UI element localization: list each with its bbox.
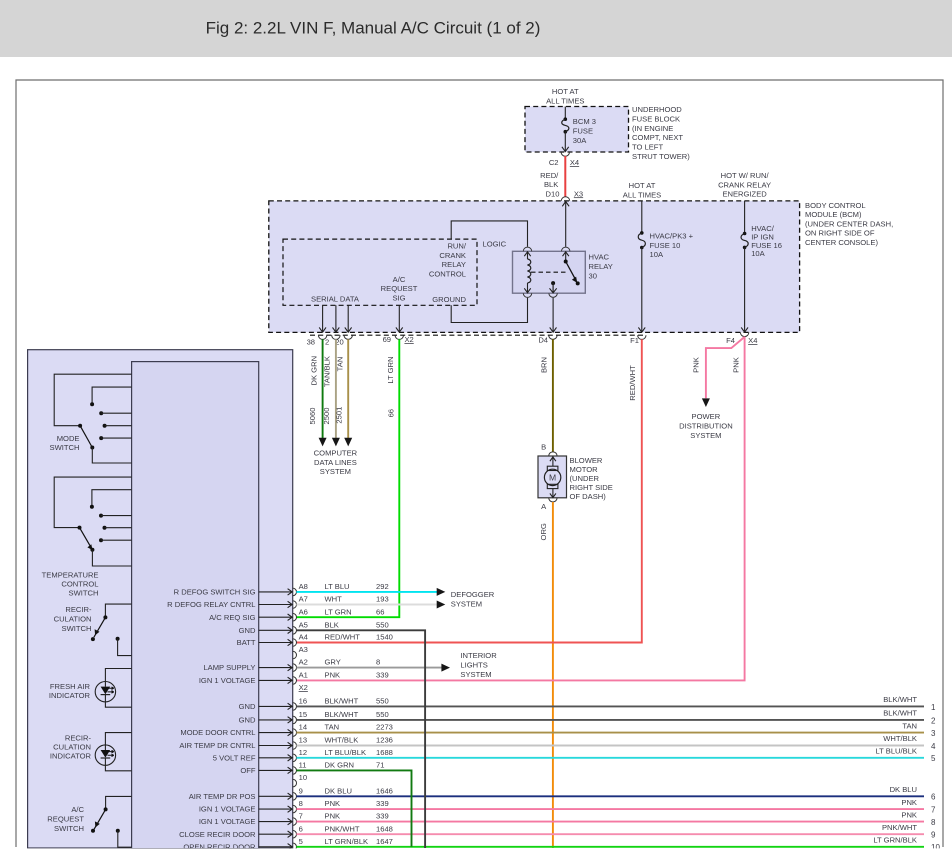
wire DK GRN 5060 bbox=[322, 339, 324, 438]
connector pin A5 bbox=[293, 627, 297, 635]
a/c request sig pin arrow bbox=[398, 305, 400, 332]
connector pin A4 bbox=[293, 639, 297, 647]
svg-text:INDICATOR: INDICATOR bbox=[50, 751, 92, 760]
svg-text:CULATION: CULATION bbox=[54, 614, 92, 623]
svg-text:30: 30 bbox=[589, 271, 597, 280]
svg-text:X4: X4 bbox=[748, 336, 757, 345]
arrow defogger A7 bbox=[437, 601, 446, 609]
svg-text:LT GRN/BLK: LT GRN/BLK bbox=[873, 836, 917, 845]
svg-text:AIR TEMP DR CNTRL: AIR TEMP DR CNTRL bbox=[179, 741, 255, 750]
connector arc pin D4 bbox=[549, 335, 557, 339]
connector pin 8 (X2) bbox=[293, 805, 297, 813]
svg-text:BLK/WHT: BLK/WHT bbox=[325, 710, 359, 719]
fuse BCM3 bbox=[564, 117, 568, 121]
svg-text:A8: A8 bbox=[299, 582, 308, 591]
svg-text:INDICATOR: INDICATOR bbox=[49, 691, 91, 700]
connector pin 16 (X2) bbox=[293, 703, 297, 711]
svg-text:X3: X3 bbox=[574, 189, 583, 198]
svg-text:SWITCH: SWITCH bbox=[50, 443, 80, 452]
connector pin 14 (X2) bbox=[293, 729, 297, 737]
wire TAN/BLK 2500 bbox=[335, 339, 337, 438]
svg-text:RED/WHT: RED/WHT bbox=[628, 365, 637, 401]
svg-text:30A: 30A bbox=[573, 136, 587, 145]
svg-text:1: 1 bbox=[931, 703, 936, 712]
svg-text:MODE: MODE bbox=[57, 434, 80, 443]
svg-text:69: 69 bbox=[383, 335, 391, 344]
svg-text:A2: A2 bbox=[299, 658, 308, 667]
svg-text:9: 9 bbox=[931, 831, 936, 840]
connector arc pin F1 bbox=[638, 335, 646, 339]
svg-text:HVAC: HVAC bbox=[589, 253, 610, 262]
svg-text:FRESH AIR: FRESH AIR bbox=[50, 682, 91, 691]
wire relay output to D4 bbox=[552, 298, 554, 332]
mode switch contact4 bbox=[99, 436, 103, 440]
connector arc pin 20 bbox=[344, 335, 352, 339]
ac request switch arm bbox=[94, 809, 106, 829]
title banner bbox=[0, 0, 952, 57]
wire LT BLU/BLK 1688 row 12 bbox=[296, 757, 924, 759]
svg-text:RED/: RED/ bbox=[540, 171, 559, 180]
connector arc pin 38 bbox=[318, 335, 326, 339]
svg-text:B: B bbox=[541, 443, 546, 452]
wire WHT/BLK 1236 row 13 bbox=[296, 745, 924, 747]
svg-text:LT BLU/BLK: LT BLU/BLK bbox=[875, 747, 917, 756]
svg-text:71: 71 bbox=[376, 761, 384, 770]
svg-text:M: M bbox=[549, 472, 556, 482]
wire RED/WHT bbox=[296, 339, 642, 642]
svg-text:PNK/WHT: PNK/WHT bbox=[325, 824, 360, 833]
svg-text:3: 3 bbox=[931, 729, 936, 738]
svg-text:PNK/WHT: PNK/WHT bbox=[882, 823, 917, 832]
svg-text:D4: D4 bbox=[538, 335, 548, 344]
wire PNK 339 row 7 bbox=[296, 821, 924, 823]
wire LT GRN 66 bbox=[296, 339, 399, 617]
blower motor lead top bbox=[552, 456, 554, 466]
svg-text:TAN/BLK: TAN/BLK bbox=[322, 356, 331, 387]
svg-text:AIR TEMP DR POS: AIR TEMP DR POS bbox=[189, 792, 256, 801]
svg-text:PNK: PNK bbox=[692, 357, 701, 373]
wire DK BLU 1646 row 9 bbox=[296, 795, 924, 797]
svg-text:BODY CONTROL: BODY CONTROL bbox=[805, 201, 866, 210]
connector X2/X3 strip line bbox=[310, 334, 646, 336]
connector pin 15 (X2) bbox=[293, 716, 297, 724]
svg-text:1540: 1540 bbox=[376, 633, 393, 642]
svg-text:GROUND: GROUND bbox=[432, 295, 466, 304]
svg-text:OPEN RECIR DOOR: OPEN RECIR DOOR bbox=[183, 842, 256, 851]
svg-text:RIGHT SIDE: RIGHT SIDE bbox=[570, 483, 613, 492]
svg-text:REQUEST: REQUEST bbox=[47, 814, 84, 823]
wire fuse16 bottom lead F4 bbox=[744, 247, 746, 332]
fresh air indicator wiring bbox=[105, 669, 131, 682]
wire BLK/WHT 550 row 16 bbox=[296, 705, 924, 707]
relay coil bbox=[528, 259, 531, 283]
svg-text:5: 5 bbox=[299, 837, 303, 846]
svg-text:IGN 1 VOLTAGE: IGN 1 VOLTAGE bbox=[199, 805, 256, 814]
svg-text:HOT AT: HOT AT bbox=[552, 87, 579, 96]
arrow interior lights bbox=[441, 664, 450, 672]
wire BLK 550 vertical bbox=[296, 630, 425, 848]
mode switch arm bbox=[80, 426, 92, 448]
svg-text:ENERGIZED: ENERGIZED bbox=[722, 190, 767, 199]
connector arc blower B bbox=[549, 452, 557, 456]
connector pin A3 bbox=[293, 651, 297, 659]
arrow at fuse block bottom bbox=[562, 147, 569, 152]
relay output arrow bbox=[552, 283, 554, 293]
fuse HVAC/PK3 FUSE 10 10A bbox=[640, 231, 644, 235]
svg-text:IGN 1 VOLTAGE: IGN 1 VOLTAGE bbox=[199, 676, 256, 685]
serial data pin arrows bbox=[322, 305, 324, 332]
svg-text:1648: 1648 bbox=[376, 824, 393, 833]
relay switch arm end dot bbox=[576, 281, 580, 285]
svg-text:UNDERHOOD: UNDERHOOD bbox=[632, 105, 682, 114]
svg-text:(IN ENGINE: (IN ENGINE bbox=[632, 124, 673, 133]
svg-text:CENTER CONSOLE): CENTER CONSOLE) bbox=[805, 238, 878, 247]
temp switch contact4 bbox=[99, 538, 103, 542]
svg-text:A4: A4 bbox=[299, 633, 308, 642]
svg-text:SYSTEM: SYSTEM bbox=[460, 670, 491, 679]
wire fuse BCM3 top lead bbox=[564, 107, 566, 120]
svg-text:SWITCH: SWITCH bbox=[69, 589, 99, 598]
svg-text:FUSE 10: FUSE 10 bbox=[650, 241, 681, 250]
svg-text:HOT AT: HOT AT bbox=[629, 181, 656, 190]
svg-text:GND: GND bbox=[239, 702, 256, 711]
connector pin 12 (X2) bbox=[293, 754, 297, 762]
connector C2/X4 arc bbox=[561, 152, 569, 156]
wire LT GRN/BLK 1647 row 5 bbox=[296, 846, 924, 848]
connector arc coil top bbox=[523, 247, 531, 251]
connector pin 10 (X2) bbox=[293, 779, 297, 787]
relay switch arm bbox=[566, 262, 575, 279]
svg-text:WHT: WHT bbox=[325, 595, 343, 604]
connector pin A7 bbox=[293, 601, 297, 609]
svg-text:339: 339 bbox=[376, 671, 389, 680]
svg-text:CRANK: CRANK bbox=[439, 251, 466, 260]
svg-text:11: 11 bbox=[299, 761, 307, 770]
wire GRY 8 bbox=[296, 667, 441, 669]
svg-text:BLK/WHT: BLK/WHT bbox=[325, 697, 359, 706]
svg-text:X2: X2 bbox=[299, 683, 308, 692]
svg-text:RELAY: RELAY bbox=[442, 260, 466, 269]
fuse HVAC/IP IGN FUSE 16 10A bbox=[743, 232, 747, 236]
mode switch bracket bbox=[54, 374, 131, 426]
svg-text:BRN: BRN bbox=[539, 357, 548, 373]
svg-text:LOGIC: LOGIC bbox=[483, 239, 507, 248]
svg-text:STRUT TOWER): STRUT TOWER) bbox=[632, 152, 690, 161]
connector pin A8 bbox=[293, 588, 297, 596]
svg-text:2: 2 bbox=[931, 716, 936, 725]
svg-text:DK GRN: DK GRN bbox=[325, 761, 355, 770]
svg-text:5: 5 bbox=[931, 754, 936, 763]
svg-text:8: 8 bbox=[299, 799, 303, 808]
svg-text:ORG: ORG bbox=[539, 523, 548, 540]
svg-text:2273: 2273 bbox=[376, 723, 393, 732]
svg-text:339: 339 bbox=[376, 799, 389, 808]
svg-text:RECIR-: RECIR- bbox=[65, 733, 92, 742]
wire TAN 2273 row 14 bbox=[296, 732, 924, 734]
wire fuse16 top lead bbox=[744, 201, 746, 234]
svg-text:TAN: TAN bbox=[325, 723, 340, 732]
svg-text:GRY: GRY bbox=[325, 658, 341, 667]
blower motor brush top bbox=[547, 466, 558, 470]
svg-text:BLK: BLK bbox=[325, 620, 339, 629]
svg-text:(UNDER CENTER DASH,: (UNDER CENTER DASH, bbox=[805, 219, 893, 228]
svg-text:SYSTEM: SYSTEM bbox=[690, 431, 721, 440]
svg-text:GND: GND bbox=[239, 716, 256, 725]
connector arc pin F4 bbox=[740, 332, 748, 336]
svg-text:RECIR-: RECIR- bbox=[65, 605, 92, 614]
svg-text:10A: 10A bbox=[751, 249, 765, 258]
svg-text:TAN: TAN bbox=[336, 357, 345, 372]
svg-text:SWITCH: SWITCH bbox=[62, 624, 92, 633]
svg-text:16: 16 bbox=[299, 697, 307, 706]
underhood fuse block box bbox=[525, 107, 629, 153]
svg-text:DATA LINES: DATA LINES bbox=[314, 458, 357, 467]
svg-text:LT BLU: LT BLU bbox=[325, 582, 350, 591]
svg-text:12: 12 bbox=[299, 748, 307, 757]
svg-text:OFF: OFF bbox=[240, 766, 256, 775]
svg-text:2500: 2500 bbox=[322, 408, 331, 425]
svg-text:COMPUTER: COMPUTER bbox=[314, 448, 358, 457]
svg-text:A3: A3 bbox=[299, 645, 308, 654]
connector D10/X3 arc bbox=[561, 197, 569, 201]
svg-text:R DEFOG SWITCH SIG: R DEFOG SWITCH SIG bbox=[174, 588, 256, 597]
svg-text:15: 15 bbox=[299, 710, 307, 719]
relay dashed link bbox=[531, 271, 566, 273]
BCM logic inner box bbox=[283, 239, 477, 305]
svg-text:F1: F1 bbox=[630, 336, 639, 345]
blower motor box bbox=[538, 456, 567, 498]
recirc switch common dot bbox=[91, 637, 95, 641]
connector pin 11 (X2) bbox=[293, 767, 297, 775]
svg-text:DK BLU: DK BLU bbox=[325, 786, 352, 795]
svg-text:1236: 1236 bbox=[376, 736, 393, 745]
blower motor circle bbox=[544, 469, 560, 485]
svg-text:RUN/: RUN/ bbox=[447, 241, 466, 250]
blower motor lead bottom bbox=[552, 489, 554, 498]
svg-text:DISTRIBUTION: DISTRIBUTION bbox=[679, 422, 733, 431]
mode switch arm end bbox=[90, 446, 94, 450]
svg-text:IGN 1 VOLTAGE: IGN 1 VOLTAGE bbox=[199, 817, 256, 826]
svg-text:MODULE (BCM): MODULE (BCM) bbox=[805, 210, 862, 219]
svg-text:DK BLU: DK BLU bbox=[890, 785, 917, 794]
svg-text:A7: A7 bbox=[299, 595, 308, 604]
wire PNK branch to power dist bbox=[706, 337, 745, 398]
temp switch contact2 bbox=[99, 514, 103, 518]
svg-text:7: 7 bbox=[931, 806, 936, 815]
temp switch pivot dot bbox=[78, 526, 82, 530]
svg-text:RED/WHT: RED/WHT bbox=[325, 633, 361, 642]
relay coil lead+arrows bbox=[527, 251, 529, 259]
svg-text:SYSTEM: SYSTEM bbox=[451, 599, 482, 608]
svg-text:8: 8 bbox=[376, 658, 380, 667]
svg-text:2: 2 bbox=[325, 337, 329, 346]
svg-text:6: 6 bbox=[299, 824, 303, 833]
svg-text:X2: X2 bbox=[404, 335, 413, 344]
relay switch common wire up bbox=[565, 251, 567, 261]
connector pin A2 bbox=[293, 664, 297, 672]
temp switch arm bbox=[80, 528, 91, 547]
svg-text:LAMP SUPPLY: LAMP SUPPLY bbox=[203, 663, 255, 672]
connector pin 7 (X2) bbox=[293, 818, 297, 826]
svg-text:BLK: BLK bbox=[544, 180, 558, 189]
svg-text:F4: F4 bbox=[726, 336, 735, 345]
svg-text:14: 14 bbox=[299, 723, 307, 732]
svg-text:DEFOGGER: DEFOGGER bbox=[451, 590, 495, 599]
blower motor brush bottom bbox=[547, 484, 558, 488]
svg-text:13: 13 bbox=[299, 736, 307, 745]
wire ORG bbox=[552, 502, 554, 848]
connector pin 5 (X2) bbox=[293, 843, 297, 851]
wire fuse10 bottom lead F1 bbox=[641, 248, 643, 333]
wire fuse10 top lead bbox=[641, 201, 643, 233]
ac request switch top bbox=[106, 796, 132, 809]
svg-text:LT GRN: LT GRN bbox=[325, 607, 352, 616]
svg-text:MOTOR: MOTOR bbox=[570, 465, 599, 474]
recirc switch top bbox=[105, 604, 131, 617]
svg-text:A: A bbox=[541, 502, 547, 511]
svg-text:LIGHTS: LIGHTS bbox=[460, 661, 487, 670]
wire BLK/WHT 550 row 15 bbox=[296, 719, 924, 721]
connector arc blower A bbox=[549, 498, 557, 502]
svg-text:TO LEFT: TO LEFT bbox=[632, 143, 663, 152]
connector pin 13 (X2) bbox=[293, 742, 297, 750]
svg-text:2501: 2501 bbox=[334, 407, 343, 424]
svg-text:INTERIOR: INTERIOR bbox=[460, 651, 497, 660]
svg-text:WHT/BLK: WHT/BLK bbox=[883, 734, 917, 743]
svg-text:1646: 1646 bbox=[376, 786, 393, 795]
connector arc pin 2 bbox=[332, 335, 340, 339]
svg-text:PNK: PNK bbox=[325, 671, 341, 680]
svg-text:550: 550 bbox=[376, 620, 389, 629]
connector pin 6 (X2) bbox=[293, 830, 297, 838]
svg-text:66: 66 bbox=[386, 409, 395, 417]
wire fuse BCM3 bottom lead bbox=[564, 132, 566, 152]
wire TAN 2501 bbox=[347, 339, 349, 438]
svg-text:1647: 1647 bbox=[376, 837, 393, 846]
svg-text:C2: C2 bbox=[549, 158, 559, 167]
svg-text:A/C: A/C bbox=[71, 805, 84, 814]
body control module box bbox=[269, 201, 800, 333]
temp switch contact3 bbox=[103, 526, 107, 530]
relay switch common dot bbox=[564, 260, 568, 264]
ac request switch contact2 bbox=[116, 829, 120, 833]
svg-text:PNK: PNK bbox=[325, 812, 341, 821]
svg-text:BLK/WHT: BLK/WHT bbox=[883, 695, 917, 704]
svg-text:TAN: TAN bbox=[902, 721, 917, 730]
svg-text:ALL TIMES: ALL TIMES bbox=[546, 97, 584, 106]
svg-text:TEMPERATURE: TEMPERATURE bbox=[42, 571, 99, 580]
svg-text:BCM 3: BCM 3 bbox=[573, 117, 596, 126]
svg-text:SYSTEM: SYSTEM bbox=[320, 467, 351, 476]
svg-text:ALL TIMES: ALL TIMES bbox=[623, 191, 661, 200]
svg-text:RELAY: RELAY bbox=[589, 262, 613, 271]
svg-text:BLOWER: BLOWER bbox=[570, 456, 603, 465]
svg-text:4: 4 bbox=[931, 742, 936, 751]
svg-text:LT GRN/BLK: LT GRN/BLK bbox=[325, 837, 369, 846]
mode switch contact3 bbox=[103, 424, 107, 428]
control panel outer box bbox=[28, 350, 293, 848]
svg-text:A5: A5 bbox=[299, 620, 308, 629]
temp switch arm end bbox=[90, 548, 94, 552]
fresh air indicator LED bbox=[95, 682, 115, 702]
svg-text:A/C REQ SIG: A/C REQ SIG bbox=[209, 613, 256, 622]
svg-text:A6: A6 bbox=[299, 607, 308, 616]
svg-text:FUSE: FUSE bbox=[573, 127, 593, 136]
svg-text:A/C: A/C bbox=[393, 275, 406, 284]
svg-text:66: 66 bbox=[376, 607, 384, 616]
svg-text:D10: D10 bbox=[546, 189, 560, 198]
svg-text:HVAC/PK3 +: HVAC/PK3 + bbox=[650, 232, 694, 241]
wire PNK from F4 bbox=[296, 337, 745, 681]
svg-text:10: 10 bbox=[299, 773, 307, 782]
svg-text:PNK: PNK bbox=[901, 810, 917, 819]
wire DK GRN 71 bbox=[296, 770, 411, 846]
svg-text:MODE DOOR CNTRL: MODE DOOR CNTRL bbox=[180, 728, 255, 737]
svg-text:LT BLU/BLK: LT BLU/BLK bbox=[325, 748, 367, 757]
svg-text:POWER: POWER bbox=[692, 412, 721, 421]
temp switch contact1 bbox=[92, 490, 132, 507]
svg-text:HOT W/ RUN/: HOT W/ RUN/ bbox=[721, 171, 770, 180]
svg-text:BATT: BATT bbox=[237, 638, 256, 647]
svg-text:38: 38 bbox=[307, 337, 315, 346]
svg-text:PNK: PNK bbox=[732, 357, 741, 373]
svg-text:OF DASH): OF DASH) bbox=[570, 492, 607, 501]
control head inner box bbox=[132, 362, 259, 849]
svg-text:CONTROL: CONTROL bbox=[61, 580, 98, 589]
svg-text:339: 339 bbox=[376, 812, 389, 821]
svg-text:550: 550 bbox=[376, 697, 389, 706]
wire RED/BLK bbox=[564, 156, 566, 197]
wire relay coil ground bbox=[451, 298, 527, 323]
wire LT BLU 292 bbox=[296, 591, 437, 593]
wire relay switch to D10 bbox=[565, 202, 567, 247]
relay output contact dot bbox=[551, 281, 555, 285]
wire WHT 193 bbox=[296, 604, 437, 606]
svg-text:SERIAL DATA: SERIAL DATA bbox=[311, 295, 360, 304]
connector pin A1 bbox=[293, 677, 297, 685]
connector arc pin 69 bbox=[395, 335, 403, 339]
svg-text:10A: 10A bbox=[650, 250, 664, 259]
wire PNK/WHT 1648 row 6 bbox=[296, 833, 924, 835]
svg-text:550: 550 bbox=[376, 710, 389, 719]
connector pin A6 bbox=[293, 613, 297, 621]
svg-text:7: 7 bbox=[299, 812, 303, 821]
svg-text:10: 10 bbox=[931, 843, 940, 852]
svg-text:WHT/BLK: WHT/BLK bbox=[325, 736, 359, 745]
recirc switch arm bbox=[94, 617, 106, 637]
connector arc coil bottom bbox=[523, 293, 531, 297]
connector pin 9 (X2) bbox=[293, 793, 297, 801]
wire PNK 339 row 8 bbox=[296, 808, 924, 810]
svg-text:193: 193 bbox=[376, 595, 389, 604]
svg-text:292: 292 bbox=[376, 582, 389, 591]
mode switch pivot dot bbox=[78, 424, 82, 428]
svg-text:Fig 2: 2.2L VIN F, Manual A/C: Fig 2: 2.2L VIN F, Manual A/C Circuit (1… bbox=[206, 19, 541, 38]
svg-text:PNK: PNK bbox=[901, 798, 917, 807]
svg-text:R DEFOG RELAY CNTRL: R DEFOG RELAY CNTRL bbox=[167, 600, 255, 609]
svg-text:6: 6 bbox=[931, 793, 936, 802]
mode switch contact2 bbox=[99, 411, 103, 415]
svg-text:8: 8 bbox=[931, 818, 936, 827]
svg-text:CLOSE RECIR DOOR: CLOSE RECIR DOOR bbox=[179, 830, 256, 839]
wire run/crank control bbox=[451, 221, 527, 247]
svg-text:5060: 5060 bbox=[308, 408, 317, 425]
arrow defogger A8 bbox=[437, 588, 446, 596]
svg-text:CULATION: CULATION bbox=[53, 742, 91, 751]
relay HVAC 30 box bbox=[513, 251, 586, 293]
wire BRN bbox=[552, 339, 554, 451]
svg-text:LT GRN: LT GRN bbox=[386, 357, 395, 384]
